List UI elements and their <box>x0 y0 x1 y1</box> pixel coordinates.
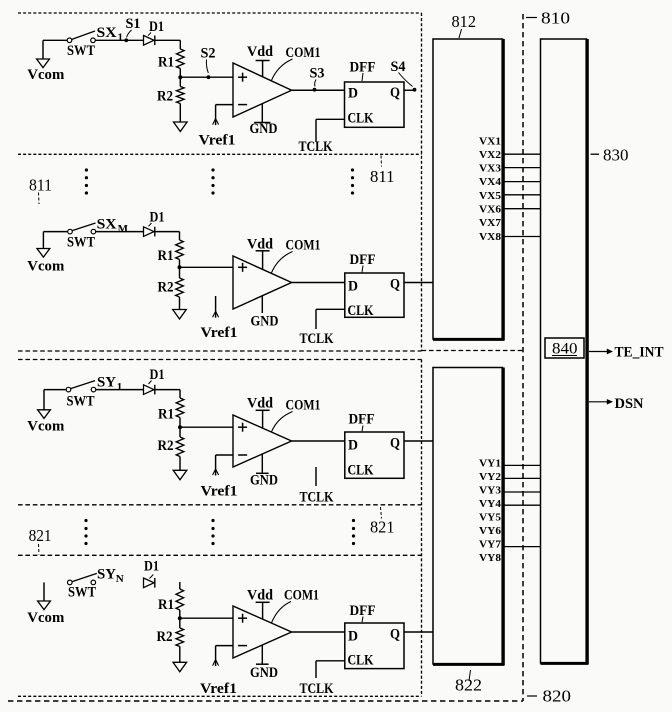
svg-text:Vcom: Vcom <box>27 67 64 83</box>
svg-text:COM1: COM1 <box>284 588 319 604</box>
svg-text:GND: GND <box>250 121 278 137</box>
svg-text:Vdd: Vdd <box>247 588 274 604</box>
svg-text:810: 810 <box>541 9 570 28</box>
svg-text:VX3: VX3 <box>479 163 502 175</box>
svg-text:S2: S2 <box>201 46 216 62</box>
svg-text:R2: R2 <box>158 438 174 454</box>
svg-text:SWT: SWT <box>67 235 95 251</box>
svg-text:VX2: VX2 <box>479 149 502 161</box>
svg-text:Q: Q <box>390 277 400 293</box>
svg-text:VY7: VY7 <box>479 539 502 551</box>
svg-text:830: 830 <box>603 146 629 165</box>
svg-text:Q: Q <box>390 627 400 643</box>
svg-text:D: D <box>348 438 358 454</box>
svg-text:1: 1 <box>118 32 124 44</box>
svg-text:1: 1 <box>117 381 123 393</box>
svg-text:821: 821 <box>29 526 52 545</box>
svg-text:821: 821 <box>370 518 395 537</box>
svg-text:TCLK: TCLK <box>300 681 334 697</box>
svg-text:VY4: VY4 <box>479 498 502 510</box>
svg-text:811: 811 <box>370 167 395 186</box>
svg-text:Vcom: Vcom <box>27 419 64 435</box>
svg-text:Vref1: Vref1 <box>201 325 238 341</box>
svg-text:TCLK: TCLK <box>300 490 334 506</box>
svg-text:CLK: CLK <box>348 111 374 127</box>
svg-text:SWT: SWT <box>67 393 95 409</box>
svg-text:S3: S3 <box>310 66 325 82</box>
svg-text:Vcom: Vcom <box>27 610 64 626</box>
svg-text:D1: D1 <box>150 210 165 226</box>
svg-text:Vcom: Vcom <box>27 259 64 275</box>
svg-text:R2: R2 <box>157 89 173 105</box>
svg-text:VY1: VY1 <box>479 458 501 470</box>
svg-text:VX4: VX4 <box>479 176 502 188</box>
svg-text:S4: S4 <box>391 59 406 75</box>
svg-text:VY5: VY5 <box>479 512 502 524</box>
svg-text:TCLK: TCLK <box>299 139 333 155</box>
svg-text:VY3: VY3 <box>479 485 502 497</box>
svg-text:CLK: CLK <box>348 303 374 319</box>
svg-text:SWT: SWT <box>67 43 95 59</box>
svg-text:R1: R1 <box>158 248 174 264</box>
svg-text:VX6: VX6 <box>479 204 502 216</box>
svg-text:Vref1: Vref1 <box>200 681 237 697</box>
svg-text:VY8: VY8 <box>479 552 502 564</box>
svg-text:CLK: CLK <box>348 653 374 669</box>
svg-text:SY: SY <box>97 567 116 583</box>
svg-text:COM1: COM1 <box>286 398 321 414</box>
svg-text:M: M <box>118 223 129 235</box>
svg-text:R2: R2 <box>157 629 173 645</box>
svg-text:D1: D1 <box>150 367 165 383</box>
svg-text:R1: R1 <box>158 597 174 613</box>
svg-text:VY2: VY2 <box>479 471 502 483</box>
svg-text:VX5: VX5 <box>479 190 502 202</box>
svg-text:VY6: VY6 <box>479 525 502 537</box>
svg-text:SWT: SWT <box>68 585 96 601</box>
svg-text:COM1: COM1 <box>286 45 321 61</box>
svg-text:COM1: COM1 <box>286 238 321 254</box>
svg-text:VX7: VX7 <box>479 217 502 229</box>
svg-text:GND: GND <box>250 473 278 489</box>
svg-text:SY: SY <box>97 375 116 391</box>
svg-text:N: N <box>116 573 124 585</box>
svg-text:Vdd: Vdd <box>247 396 274 412</box>
svg-text:Vref1: Vref1 <box>201 484 238 500</box>
svg-text:D1: D1 <box>149 19 164 35</box>
svg-text:812: 812 <box>452 12 477 31</box>
svg-text:GND: GND <box>251 314 279 330</box>
svg-text:S1: S1 <box>126 16 141 32</box>
svg-text:TCLK: TCLK <box>300 331 334 347</box>
svg-text:TE_INT: TE_INT <box>615 345 664 361</box>
svg-text:D1: D1 <box>144 559 159 575</box>
svg-text:822: 822 <box>455 676 482 695</box>
svg-text:D: D <box>348 86 358 102</box>
svg-text:DSN: DSN <box>615 396 645 412</box>
svg-text:D: D <box>348 279 358 295</box>
svg-text:R1: R1 <box>158 406 174 422</box>
svg-text:VX8: VX8 <box>479 231 502 243</box>
svg-text:D: D <box>348 629 358 645</box>
svg-text:SX: SX <box>97 217 117 233</box>
svg-text:VX1: VX1 <box>479 135 501 147</box>
svg-text:CLK: CLK <box>348 462 374 478</box>
svg-text:SX: SX <box>97 25 117 41</box>
svg-text:Q: Q <box>390 85 400 101</box>
svg-text:R2: R2 <box>158 280 174 296</box>
svg-text:R1: R1 <box>158 55 174 71</box>
svg-text:Vref1: Vref1 <box>199 133 236 149</box>
svg-text:GND: GND <box>250 665 278 681</box>
svg-text:811: 811 <box>29 176 52 195</box>
svg-text:Q: Q <box>390 436 400 452</box>
svg-text:DFF: DFF <box>349 412 375 428</box>
svg-text:Vdd: Vdd <box>247 44 274 60</box>
svg-text:820: 820 <box>543 687 572 706</box>
